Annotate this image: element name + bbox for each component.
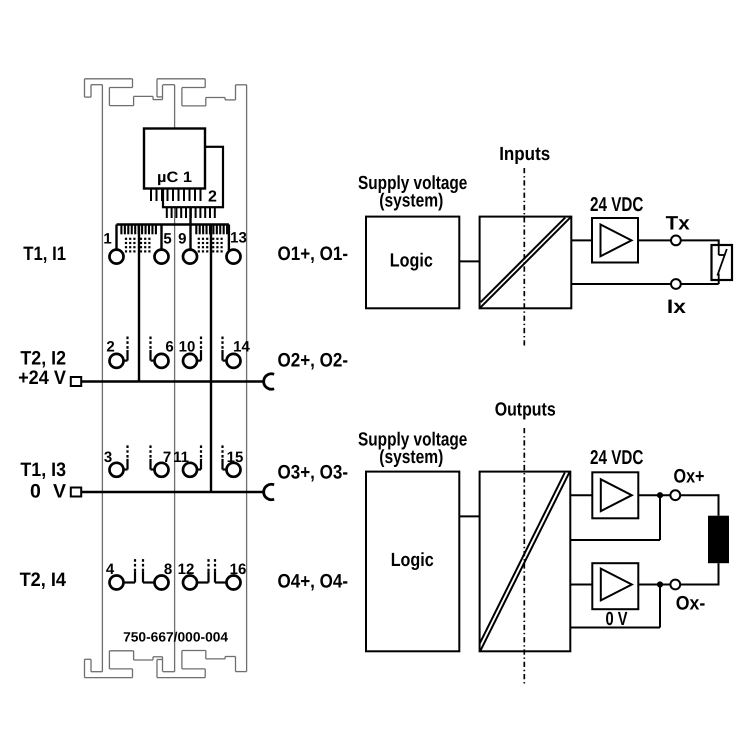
dashed stub at terminal row 2 col 1	[124, 337, 128, 361]
svg-text:10: 10	[179, 339, 196, 356]
Ox+ terminal circle	[670, 490, 680, 500]
bus ellipsis dot grids	[125, 238, 223, 253]
svg-text:7: 7	[163, 449, 171, 466]
svg-text:24 VDC: 24 VDC	[590, 194, 643, 216]
svg-text:O3+, O3-: O3+, O3-	[278, 462, 349, 484]
module housing center vertical	[174, 85, 176, 672]
wire: row1 bus bar	[117, 223, 229, 225]
wire amp2 to Ox-	[638, 584, 671, 586]
Ix terminal circle	[671, 279, 681, 289]
svg-text:Logic: Logic	[390, 251, 433, 272]
isolator diagonal stripes bottom	[480, 473, 570, 651]
inputs isolation dash-dot boundary line	[523, 168, 525, 348]
svg-text:9: 9	[178, 231, 186, 248]
svg-text:Tx: Tx	[666, 213, 690, 235]
wire logic to isolator bottom	[459, 515, 479, 517]
module housing bottom DIN-rail profile	[85, 651, 247, 678]
bus comb teeth right group	[196, 225, 227, 235]
+24V feed square terminal	[71, 377, 81, 386]
output amplifier 2 triangle	[601, 569, 632, 601]
Tx terminal circle	[671, 236, 681, 246]
svg-text:24 VDC: 24 VDC	[590, 447, 643, 469]
svg-text:6: 6	[165, 339, 173, 356]
wire: bus drop to terminal 5	[160, 225, 162, 251]
input amplifier box	[592, 218, 638, 263]
logic box U2	[366, 217, 459, 309]
wire: 0V rail	[81, 491, 264, 493]
dashed stub at terminal row 2 col 2	[151, 337, 155, 361]
wire: bus down to 0V rail	[210, 225, 212, 493]
svg-text:T2, I4: T2, I4	[20, 569, 67, 591]
dashed stub at terminal row 3 col 3	[197, 445, 201, 469]
svg-text:Ix: Ix	[667, 296, 686, 318]
svg-text:15: 15	[227, 449, 244, 466]
feedback wire amp1 to isolator	[570, 495, 660, 540]
svg-text:µC 1: µC 1	[157, 169, 192, 186]
wire: +24V rail	[81, 380, 264, 382]
svg-text:14: 14	[233, 339, 250, 356]
svg-text:8: 8	[164, 561, 172, 578]
wire isolator to amp2	[570, 584, 592, 586]
output amplifier box 2	[592, 563, 638, 609]
dashed stub at terminal row 4 col 1	[124, 558, 136, 583]
svg-text:Inputs: Inputs	[499, 144, 550, 165]
svg-text:11: 11	[173, 449, 189, 466]
bus comb teeth left group	[121, 225, 155, 235]
wire load to Ox-	[680, 563, 718, 585]
svg-text:2: 2	[208, 189, 217, 206]
wire isolator to Ix	[571, 283, 671, 285]
svg-text:Ox+: Ox+	[674, 466, 705, 488]
wire isolator to amp1	[570, 494, 592, 496]
wire amplifier to Tx terminal	[638, 239, 671, 241]
logic box U3	[366, 472, 459, 652]
svg-text:5: 5	[163, 231, 171, 248]
dashed stub at terminal row 2 col 3	[197, 337, 201, 361]
dashed stub at terminal row 3 col 1	[124, 445, 128, 469]
wire Tx to sensor	[681, 239, 719, 241]
svg-text:O2+, O2-: O2+, O2-	[278, 350, 349, 372]
dashed stub at terminal row 2 col 4	[223, 337, 227, 361]
wire isolator to amplifier	[571, 239, 592, 241]
svg-text:12: 12	[178, 561, 195, 578]
isolator diagonal stripes	[481, 218, 571, 308]
junction dot amp2 output	[657, 581, 663, 587]
input amplifier triangle	[601, 225, 632, 257]
terminal pin numbers	[103, 230, 250, 578]
uC1 pin comb	[151, 189, 201, 202]
dashed stub at terminal row 4 col 2	[143, 558, 155, 583]
terminal contact circles rows 1-4	[110, 250, 241, 590]
load block (black)	[708, 516, 729, 564]
svg-text:T1, I3: T1, I3	[20, 459, 66, 481]
module housing left rail vertical	[101, 85, 103, 672]
module housing right rail vertical	[246, 85, 248, 672]
dashed stub at terminal row 3 col 2	[151, 445, 155, 469]
block 2 pin comb	[167, 207, 215, 218]
svg-text:13: 13	[230, 230, 247, 247]
sensor switch contact	[717, 245, 726, 280]
op block: microcontroller U1 box	[144, 129, 205, 189]
dashed stub at terminal row 4 col 3	[197, 558, 209, 583]
wire: block2 to terminal 9	[189, 207, 191, 250]
svg-text:4: 4	[106, 561, 115, 578]
output amplifier 1 triangle	[601, 479, 632, 511]
svg-text:750-667/000-004: 750-667/000-004	[123, 630, 228, 645]
microcontroller block 2 (behind)	[163, 147, 223, 207]
svg-text:Ox-: Ox-	[676, 593, 706, 615]
galvanic isolator box top	[480, 217, 572, 309]
galvanic isolator box bottom	[480, 472, 571, 652]
wire: bus drop to terminal 1	[115, 225, 117, 251]
0V rail jumper contact arc	[264, 484, 274, 499]
svg-text:16: 16	[230, 561, 247, 578]
wire logic to isolator	[459, 260, 479, 262]
wire: bus down to +24V rail	[138, 225, 140, 382]
output amplifier box 1	[592, 472, 638, 518]
svg-text:0 V: 0 V	[30, 481, 66, 503]
sensor switch box	[712, 245, 733, 280]
svg-text:1: 1	[103, 231, 111, 248]
module housing top DIN-rail profile	[85, 79, 247, 106]
svg-text:(system): (system)	[379, 190, 443, 211]
svg-text:(system): (system)	[379, 447, 443, 468]
svg-text:O4+, O4-: O4+, O4-	[278, 571, 349, 593]
svg-text:3: 3	[104, 449, 112, 466]
0V feed square terminal	[71, 488, 81, 497]
wire Ox+ to load	[680, 494, 718, 516]
junction dot amp1 output	[657, 492, 663, 498]
dashed stub at terminal row 3 col 4	[223, 445, 227, 469]
+24V rail jumper contact arc	[264, 374, 274, 389]
outputs isolation dash-dot boundary line	[523, 428, 525, 684]
svg-text:Outputs: Outputs	[495, 399, 556, 420]
svg-text:0 V: 0 V	[606, 609, 628, 630]
svg-text:Logic: Logic	[391, 550, 434, 571]
svg-text:T1, I1: T1, I1	[23, 243, 66, 265]
wire amp1 to Ox+	[638, 494, 671, 496]
Ox- terminal circle	[670, 580, 680, 590]
svg-text:+24 V: +24 V	[18, 367, 66, 389]
feedback wire amp2 to isolator (0V)	[570, 585, 660, 628]
wire: bus drop to terminal 13	[228, 225, 230, 252]
svg-text:2: 2	[106, 339, 114, 356]
wire Ix return	[718, 280, 720, 284]
dashed stub at terminal row 4 col 4	[215, 558, 227, 583]
svg-text:O1+, O1-: O1+, O1-	[278, 243, 349, 265]
